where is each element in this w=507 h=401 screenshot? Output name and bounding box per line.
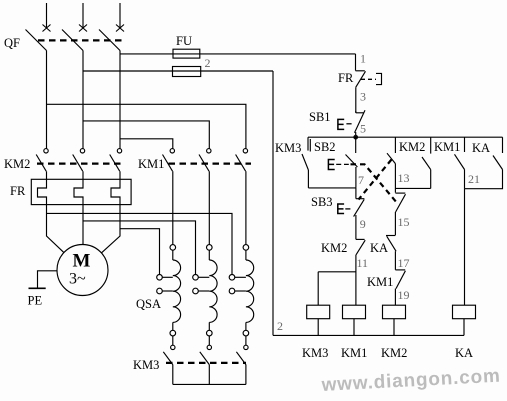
svg-text:KM3: KM3	[275, 141, 301, 155]
svg-text:5: 5	[360, 121, 366, 135]
svg-text:PE: PE	[28, 294, 43, 308]
SB3 actuator E	[338, 204, 351, 214]
contactor KM3 pole 2	[200, 336, 212, 385]
button SB3 (NC pole)	[354, 188, 365, 240]
svg-text:KA: KA	[455, 346, 473, 360]
contact KA (NC)	[386, 236, 396, 270]
wire branch L2 to KM1 pole 2	[83, 121, 209, 149]
mech link SB3 poles (dashed X)	[359, 160, 392, 200]
svg-text:KM1: KM1	[341, 346, 367, 360]
FR actuator (dashed link and bracket)	[361, 73, 382, 84]
svg-text:KM2: KM2	[381, 346, 407, 360]
SB1 actuator E	[338, 119, 352, 129]
wire fuse feed 1	[120, 53, 356, 55]
svg-text:21: 21	[468, 172, 480, 186]
wire node21 down to KA coil	[464, 189, 466, 306]
label SB2 (divider and text)	[310, 139, 335, 154]
POWER SECTION	[4, 3, 356, 384]
svg-text:FR: FR	[10, 184, 26, 198]
svg-text:QF: QF	[4, 36, 20, 50]
svg-text:KM1: KM1	[434, 140, 460, 154]
coil KA	[453, 305, 476, 319]
svg-text:M: M	[73, 251, 91, 272]
svg-text:13: 13	[398, 171, 410, 185]
wire net5	[355, 132, 357, 137]
svg-text:QSA: QSA	[136, 297, 161, 311]
svg-text:SB2: SB2	[314, 140, 336, 154]
coil KM1	[343, 305, 366, 319]
FR heater phase1	[38, 171, 47, 204]
button SB1 (NC stop)	[355, 110, 366, 133]
svg-text:KM3: KM3	[302, 346, 328, 360]
node 5 junction dot	[353, 135, 358, 140]
QSA unit 2	[193, 171, 217, 336]
KM3 mechanical link (dashed)	[166, 362, 246, 364]
svg-text:2: 2	[205, 56, 211, 70]
svg-text:KA: KA	[472, 141, 490, 155]
wire tap feed from L3 to QSA unit1	[120, 229, 160, 275]
svg-text:KM1: KM1	[367, 275, 393, 289]
mech link SB2 poles (dashed X)	[351, 164, 398, 203]
contact KM3 aux (NO self-hold)	[302, 137, 308, 188]
contactor KM2 pole 2	[73, 149, 85, 172]
svg-text:FU: FU	[176, 34, 192, 48]
contact KM1 aux	[455, 137, 465, 189]
breaker QF pole 1 blade	[26, 30, 47, 51]
wire net2 bottom rail	[273, 334, 464, 336]
contact KM1 (NC interlock)	[395, 270, 405, 305]
QSA unit 3	[229, 171, 254, 336]
supply line L1 with arrowhead	[43, 3, 51, 32]
svg-text:15: 15	[398, 215, 410, 229]
wire node11 to KM3 coil	[318, 272, 356, 305]
svg-text:KM2: KM2	[399, 140, 425, 154]
svg-text:KM3: KM3	[133, 358, 159, 372]
wire fuse feed 2	[83, 70, 273, 72]
contact SB2 second pole (net13 branch)	[387, 137, 395, 192]
svg-text:17: 17	[398, 256, 410, 270]
supply line L3 with arrowhead	[116, 3, 124, 32]
PE ground	[29, 271, 58, 289]
wire phase1 QF to KM2	[46, 51, 48, 149]
contactor KM1 pole 2	[199, 149, 211, 172]
SB2 actuator E	[328, 160, 348, 170]
svg-text:www.diangon.com: www.diangon.com	[320, 366, 501, 396]
wire net2 left rail	[272, 71, 274, 335]
wire branch L1 to KM1 pole 3	[47, 104, 246, 148]
contactor KM2 pole 1	[36, 149, 48, 172]
contact KM2 aux (self-hold)	[422, 137, 431, 188]
thermal relay FR box	[31, 179, 131, 204]
wire net3	[355, 87, 357, 113]
KM1 mechanical link (dashed)	[169, 162, 252, 164]
coil bottom stubs	[318, 319, 464, 336]
breaker QF pole 2 blade	[62, 30, 83, 51]
svg-text:KM2: KM2	[321, 241, 347, 255]
svg-text:3: 3	[360, 90, 366, 104]
svg-text:7: 7	[358, 173, 364, 187]
svg-text:19: 19	[398, 288, 410, 302]
motor M	[57, 245, 108, 296]
contact KM2 (NC interlock)	[356, 239, 365, 305]
contact FR (NC, thermal)	[356, 71, 366, 87]
contactor KM1 pole 3	[236, 149, 248, 172]
svg-text:KM2: KM2	[4, 157, 30, 171]
coil KM3	[307, 305, 330, 319]
breaker QF pole 3 blade	[99, 30, 120, 51]
svg-text:SB3: SB3	[311, 195, 333, 209]
QSA unit 1	[157, 171, 181, 336]
contact SB3 second pole (net13-15)	[395, 193, 405, 235]
wire motor lead U	[47, 205, 64, 253]
svg-text:1: 1	[360, 52, 366, 66]
contactor KM3 pole 3	[236, 336, 248, 385]
svg-text:3~: 3~	[69, 271, 86, 288]
wire net1 from FU1 down	[355, 54, 357, 71]
FR heater phase2	[74, 171, 83, 204]
supply line L2 with arrowhead	[79, 3, 87, 32]
svg-text:FR: FR	[338, 71, 354, 85]
QF mechanical link (dashed)	[38, 39, 124, 41]
contactor KM1 pole 1	[163, 149, 175, 172]
contactor KM3 pole 1	[163, 336, 175, 385]
wire tap feed from L1 to QSA unit3	[47, 213, 233, 274]
svg-text:2: 2	[277, 319, 283, 333]
wire KM3 star bus	[173, 383, 246, 385]
wire net13 to KM2 aux	[395, 187, 430, 189]
svg-text:9: 9	[360, 217, 366, 231]
fuse FU1	[173, 49, 200, 58]
wire KM3 bypass to node 7	[308, 187, 356, 189]
wire branch L3 to KM1 pole 1	[120, 139, 173, 149]
wire node5 rail	[308, 136, 503, 138]
KM2 mechanical link (dashed)	[37, 162, 125, 164]
wire motor lead W	[101, 205, 120, 253]
svg-text:11: 11	[357, 256, 369, 270]
wire phase2 QF to KM2	[82, 51, 84, 149]
coil KM2	[383, 305, 406, 319]
svg-text:SB1: SB1	[309, 110, 331, 124]
svg-text:KA: KA	[370, 241, 388, 255]
contact KA aux	[465, 137, 503, 189]
contactor KM2 pole 3	[110, 149, 122, 172]
wire motor lead V	[82, 205, 84, 245]
wire phase3 QF to KM2	[119, 51, 121, 149]
button SB2 (NO start)	[346, 137, 358, 188]
wire tap feed from L2 to QSA unit2	[83, 221, 196, 275]
CONTROL SECTION	[273, 52, 503, 361]
svg-text:KM1: KM1	[138, 157, 164, 171]
fuse FU2	[173, 67, 201, 77]
FR heater phase3	[111, 171, 120, 204]
